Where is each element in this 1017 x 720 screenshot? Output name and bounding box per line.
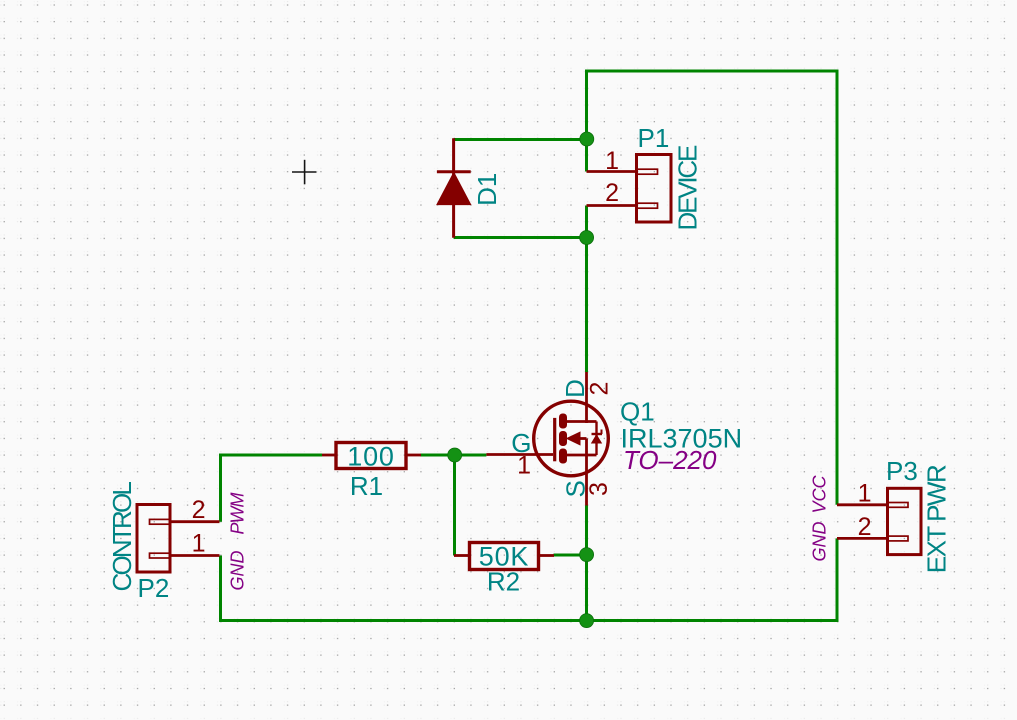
svg-text:2: 2 xyxy=(858,513,872,541)
junction node gate-R2 xyxy=(448,448,462,462)
svg-text:100: 100 xyxy=(347,442,394,472)
svg-text:2: 2 xyxy=(605,179,619,207)
svg-text:GND: GND xyxy=(228,551,248,591)
svg-text:VCC: VCC xyxy=(810,474,830,513)
svg-text:2: 2 xyxy=(192,496,206,524)
junction node source-R2 xyxy=(580,548,594,562)
wire right rail VCC xyxy=(836,70,839,505)
svg-text:2: 2 xyxy=(586,382,614,396)
junction node drain-D1 top xyxy=(580,132,594,146)
svg-text:P2: P2 xyxy=(138,573,170,603)
diode D1 xyxy=(437,138,471,238)
connector P2 xyxy=(137,505,220,573)
svg-text:P1: P1 xyxy=(638,123,670,153)
wire source vertical xyxy=(585,506,588,621)
svg-text:1: 1 xyxy=(858,480,872,508)
svg-text:3: 3 xyxy=(585,482,613,496)
svg-text:PWM: PWM xyxy=(228,493,248,535)
wire top rail xyxy=(585,70,838,73)
wire R2 right to source xyxy=(554,554,587,557)
wire drain top vertical xyxy=(585,70,588,172)
wire D1 cathode bottom xyxy=(454,236,587,239)
junction node drain-D1 bottom xyxy=(580,231,594,245)
wire drain rail xyxy=(585,236,588,372)
svg-text:P3: P3 xyxy=(886,456,918,486)
svg-text:1: 1 xyxy=(192,530,206,558)
svg-text:1: 1 xyxy=(605,147,619,175)
svg-text:DEVICE: DEVICE xyxy=(673,145,703,230)
wire gate horizontal right xyxy=(420,454,486,457)
resistor R1 xyxy=(322,443,421,469)
wire R2 branch vertical xyxy=(453,454,456,556)
svg-text:Q1: Q1 xyxy=(620,397,655,427)
svg-text:EXT PWR: EXT PWR xyxy=(922,465,952,573)
wire P2 pin2 vertical xyxy=(219,454,222,522)
wire D1 anode top xyxy=(454,138,587,141)
connector P3 xyxy=(837,488,921,554)
svg-text:R1: R1 xyxy=(350,471,383,501)
wire P3 pin2 vertical xyxy=(836,538,839,622)
wire P2 pin1 vertical xyxy=(219,556,222,622)
svg-text:R2: R2 xyxy=(487,567,520,597)
wire P1 pin2 to drain net xyxy=(585,206,588,240)
connector P1 xyxy=(587,155,672,223)
wire gate horizontal left xyxy=(219,454,322,457)
svg-text:CONTROL: CONTROL xyxy=(107,482,137,592)
svg-text:1: 1 xyxy=(517,452,531,480)
svg-text:TO–220: TO–220 xyxy=(623,445,717,475)
wire bottom rail GND xyxy=(219,619,838,622)
svg-text:D1: D1 xyxy=(472,173,502,206)
svg-text:GND: GND xyxy=(810,522,830,562)
cursor crosshair xyxy=(292,160,317,185)
resistor R2 xyxy=(454,543,554,570)
junction node source-GND rail xyxy=(580,614,594,628)
transistor Q1 xyxy=(486,372,608,506)
